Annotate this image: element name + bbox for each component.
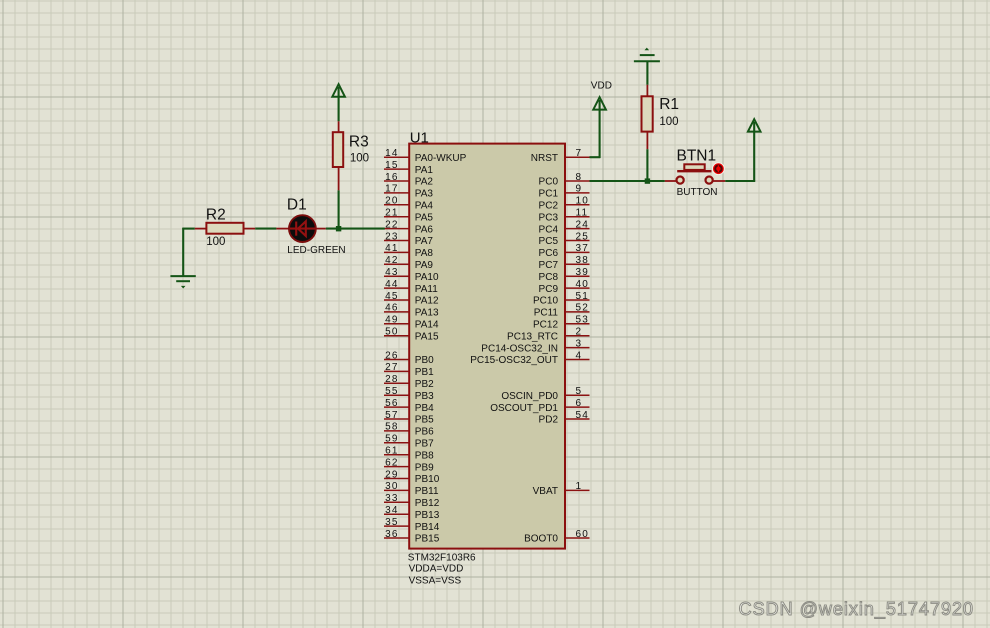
svg-text:39: 39 xyxy=(576,267,590,278)
svg-text:OSCIN_PD0: OSCIN_PD0 xyxy=(501,391,558,402)
pin PB0 (pin 26) left stub, number and name xyxy=(384,350,434,366)
svg-text:PC7: PC7 xyxy=(539,260,559,271)
button BTN1 left lead xyxy=(665,180,676,182)
pin OSCIN_PD0 (pin 5) right stub, number and name xyxy=(501,386,589,402)
svg-text:24: 24 xyxy=(576,219,590,230)
svg-text:VSSA=VSS: VSSA=VSS xyxy=(409,576,462,587)
svg-text:PA1: PA1 xyxy=(415,165,434,176)
wire: top ground down to R1 xyxy=(646,61,648,85)
pin PD2 (pin 54) right stub, number and name xyxy=(539,410,590,426)
button BTN1 left contact xyxy=(677,177,684,184)
svg-text:61: 61 xyxy=(385,446,399,457)
svg-text:59: 59 xyxy=(385,434,399,445)
svg-text:VDD: VDD xyxy=(591,81,612,92)
svg-text:NRST: NRST xyxy=(531,153,558,164)
resistor R1 body xyxy=(642,96,653,131)
LED D1 anode lead xyxy=(276,228,289,230)
pin PB13 (pin 34) left stub, number and name xyxy=(384,505,440,521)
junction node: R1 on PC0 wire xyxy=(645,178,650,183)
svg-text:PB0: PB0 xyxy=(415,355,434,366)
svg-text:PB14: PB14 xyxy=(415,522,440,533)
svg-text:PC12: PC12 xyxy=(533,320,558,331)
button BTN1 actuation red dot xyxy=(712,162,725,175)
svg-text:PB13: PB13 xyxy=(415,510,440,521)
svg-text:33: 33 xyxy=(385,493,399,504)
pin PB1 (pin 27) left stub, number and name xyxy=(384,362,434,378)
svg-text:PC9: PC9 xyxy=(539,284,559,295)
wire: ground corner to R2 left lead (horizontal) xyxy=(182,228,194,230)
LED D1 body (animated LED, black disc with red ring) xyxy=(289,215,316,242)
pin PA4 (pin 20) left stub, number and name xyxy=(384,196,433,212)
svg-text:41: 41 xyxy=(385,243,399,254)
svg-text:PA5: PA5 xyxy=(415,212,434,223)
pin PA13 (pin 46) left stub, number and name xyxy=(384,303,439,319)
pin PC11 (pin 52) right stub, number and name xyxy=(534,303,590,319)
svg-text:100: 100 xyxy=(659,116,678,128)
svg-text:46: 46 xyxy=(385,303,399,314)
svg-text:27: 27 xyxy=(385,362,399,373)
svg-text:CSDN @weixin_51747920: CSDN @weixin_51747920 xyxy=(739,599,974,620)
svg-text:STM32F103R6: STM32F103R6 xyxy=(408,553,476,564)
svg-text:44: 44 xyxy=(385,279,399,290)
svg-text:PA12: PA12 xyxy=(415,296,439,307)
pin OSCOUT_PD1 (pin 6) right stub, number and name xyxy=(490,398,589,414)
pin PC0 (pin 8) right stub, number and name xyxy=(539,172,590,188)
svg-text:PB8: PB8 xyxy=(415,450,434,461)
svg-text:57: 57 xyxy=(385,410,399,421)
pin PC10 (pin 51) right stub, number and name xyxy=(533,291,590,307)
pin 7 NRST wire to VDD riser xyxy=(590,156,601,158)
svg-text:54: 54 xyxy=(576,410,590,421)
svg-text:40: 40 xyxy=(576,279,590,290)
svg-text:21: 21 xyxy=(385,208,399,219)
pin PB11 (pin 30) left stub, number and name xyxy=(384,481,439,497)
svg-text:60: 60 xyxy=(576,529,590,540)
svg-text:17: 17 xyxy=(385,184,399,195)
wire: R1 bottom to PC0 wire junction xyxy=(646,149,648,181)
svg-text:10: 10 xyxy=(576,196,590,207)
svg-text:3: 3 xyxy=(576,338,583,349)
svg-text:PA14: PA14 xyxy=(415,320,439,331)
svg-text:PA9: PA9 xyxy=(415,260,434,271)
pin PA7 (pin 23) left stub, number and name xyxy=(384,231,433,247)
svg-text:PB10: PB10 xyxy=(415,474,440,485)
svg-text:37: 37 xyxy=(576,243,590,254)
svg-text:PB2: PB2 xyxy=(415,379,434,390)
button BTN1 right lead xyxy=(713,180,725,182)
svg-text:28: 28 xyxy=(385,374,399,385)
svg-text:PC5: PC5 xyxy=(539,236,559,247)
resistor R2 right lead xyxy=(244,228,256,230)
svg-text:58: 58 xyxy=(385,422,399,433)
resistor R3 body xyxy=(333,132,343,167)
svg-text:PC3: PC3 xyxy=(539,212,559,223)
svg-text:PB7: PB7 xyxy=(415,439,434,450)
pin NRST (pin 7) right stub, number and name xyxy=(531,148,590,164)
svg-text:PC15-OSC32_OUT: PC15-OSC32_OUT xyxy=(470,355,558,366)
svg-text:BOOT0: BOOT0 xyxy=(524,534,558,545)
svg-text:42: 42 xyxy=(385,255,399,266)
LED D1 cathode lead xyxy=(316,228,326,230)
junction node: R3 bottom on PA6 wire xyxy=(336,226,341,231)
svg-text:PC14-OSC32_IN: PC14-OSC32_IN xyxy=(481,343,558,354)
pin PC5 (pin 25) right stub, number and name xyxy=(539,231,590,247)
pin PB15 (pin 36) left stub, number and name xyxy=(384,529,440,545)
pin PA8 (pin 41) left stub, number and name xyxy=(384,243,433,259)
svg-text:2: 2 xyxy=(576,327,583,338)
pin PB7 (pin 59) left stub, number and name xyxy=(384,434,434,450)
wire: right power riser (vertical) xyxy=(753,122,755,182)
ground symbol (left, below R2) xyxy=(170,276,195,288)
svg-text:14: 14 xyxy=(385,148,399,159)
wire: ground riser to R2 (vertical) xyxy=(182,228,184,276)
power symbol (arrow) VDD xyxy=(593,97,606,109)
svg-text:PA8: PA8 xyxy=(415,248,434,259)
svg-text:PB6: PB6 xyxy=(415,427,434,438)
pin PB9 (pin 62) left stub, number and name xyxy=(384,457,434,473)
pin PB5 (pin 57) left stub, number and name xyxy=(384,410,434,426)
svg-text:52: 52 xyxy=(576,303,590,314)
svg-text:26: 26 xyxy=(385,350,399,361)
svg-text:62: 62 xyxy=(385,457,399,468)
pin PC1 (pin 9) right stub, number and name xyxy=(539,184,590,200)
svg-text:PC4: PC4 xyxy=(539,224,559,235)
svg-text:29: 29 xyxy=(385,469,399,480)
pin PA15 (pin 50) left stub, number and name xyxy=(384,327,439,343)
pin PA12 (pin 45) left stub, number and name xyxy=(384,291,439,307)
pin PA14 (pin 49) left stub, number and name xyxy=(384,315,439,331)
wire: BTN1 to right power riser xyxy=(725,180,755,182)
resistor R2 body xyxy=(206,223,243,234)
svg-text:PC0: PC0 xyxy=(539,177,559,188)
svg-text:53: 53 xyxy=(576,315,590,326)
svg-text:8: 8 xyxy=(576,172,583,183)
svg-text:PA6: PA6 xyxy=(415,224,434,235)
svg-text:56: 56 xyxy=(385,398,399,409)
svg-text:PB11: PB11 xyxy=(415,486,439,497)
svg-text:PB12: PB12 xyxy=(415,498,440,509)
svg-text:PA11: PA11 xyxy=(415,284,438,295)
pin PA1 (pin 15) left stub, number and name xyxy=(384,160,433,176)
pin PA6 (pin 22) left stub, number and name xyxy=(384,219,433,235)
pin BOOT0 (pin 60) right stub, number and name xyxy=(524,529,589,545)
pin PC2 (pin 10) right stub, number and name xyxy=(539,196,590,212)
svg-text:PB5: PB5 xyxy=(415,415,434,426)
svg-text:15: 15 xyxy=(385,160,399,171)
pin PC3 (pin 11) right stub, number and name xyxy=(539,208,590,224)
wire: VDD riser (vertical) xyxy=(599,100,601,158)
pin PC8 (pin 39) right stub, number and name xyxy=(539,267,590,283)
svg-text:45: 45 xyxy=(385,291,399,302)
pin VBAT (pin 1) right stub, number and name xyxy=(533,481,590,497)
svg-text:PC13_RTC: PC13_RTC xyxy=(507,331,558,342)
svg-text:PA13: PA13 xyxy=(415,308,439,319)
power symbol (arrow) above R3 xyxy=(332,84,345,97)
pin PA3 (pin 17) left stub, number and name xyxy=(384,184,433,200)
svg-text:PD2: PD2 xyxy=(539,415,559,426)
svg-text:36: 36 xyxy=(385,529,399,540)
svg-text:22: 22 xyxy=(385,219,399,230)
svg-text:U1: U1 xyxy=(410,129,429,146)
svg-text:20: 20 xyxy=(385,196,399,207)
pin PC13_RTC (pin 2) right stub, number and name xyxy=(507,327,589,343)
pin PC7 (pin 38) right stub, number and name xyxy=(539,255,590,271)
pin PB10 (pin 29) left stub, number and name xyxy=(384,469,440,485)
svg-text:PC8: PC8 xyxy=(539,272,559,283)
wire: R3 top to power arrow xyxy=(338,87,340,121)
svg-text:PA0-WKUP: PA0-WKUP xyxy=(415,153,467,164)
svg-text:PA2: PA2 xyxy=(415,177,434,188)
pin PC4 (pin 24) right stub, number and name xyxy=(539,219,590,235)
svg-text:PA7: PA7 xyxy=(415,236,434,247)
svg-text:BUTTON: BUTTON xyxy=(677,187,718,198)
svg-text:50: 50 xyxy=(385,327,399,338)
ground symbol (top, above R1, flipped) xyxy=(634,48,660,62)
pin PB2 (pin 28) left stub, number and name xyxy=(384,374,434,390)
wire: R2 to D1 xyxy=(255,228,276,230)
pin PB6 (pin 58) left stub, number and name xyxy=(384,422,434,438)
pin PC14-OSC32_IN (pin 3) right stub, number and name xyxy=(481,338,589,354)
svg-text:23: 23 xyxy=(385,231,399,242)
svg-text:PC1: PC1 xyxy=(539,189,559,200)
svg-text:LED-GREEN: LED-GREEN xyxy=(287,245,345,256)
pin PB14 (pin 35) left stub, number and name xyxy=(384,517,440,533)
svg-text:PB1: PB1 xyxy=(415,367,434,378)
svg-text:30: 30 xyxy=(385,481,399,492)
pin PC6 (pin 37) right stub, number and name xyxy=(539,243,590,259)
svg-text:43: 43 xyxy=(385,267,399,278)
pin PC9 (pin 40) right stub, number and name xyxy=(539,279,590,295)
svg-text:38: 38 xyxy=(576,255,590,266)
svg-text:R1: R1 xyxy=(659,96,679,113)
svg-text:PC6: PC6 xyxy=(539,248,559,259)
svg-text:PB15: PB15 xyxy=(415,534,440,545)
power symbol (arrow) right of BTN1 xyxy=(748,119,761,131)
svg-text:7: 7 xyxy=(576,148,583,159)
svg-text:100: 100 xyxy=(206,236,225,248)
pin PB12 (pin 33) left stub, number and name xyxy=(384,493,440,509)
svg-text:PB9: PB9 xyxy=(415,462,434,473)
resistor R2 left lead xyxy=(195,228,207,230)
button BTN1 right contact xyxy=(706,177,713,184)
pin PA9 (pin 42) left stub, number and name xyxy=(384,255,433,271)
svg-text:PA4: PA4 xyxy=(415,201,434,212)
resistor R1 top lead xyxy=(646,85,648,97)
svg-text:51: 51 xyxy=(576,291,590,302)
svg-text:PC2: PC2 xyxy=(539,201,559,212)
svg-text:4: 4 xyxy=(576,350,583,361)
svg-text:100: 100 xyxy=(350,153,369,165)
pin PA11 (pin 44) left stub, number and name xyxy=(384,279,438,295)
pin PA10 (pin 43) left stub, number and name xyxy=(384,267,439,283)
svg-text:OSCOUT_PD1: OSCOUT_PD1 xyxy=(490,403,558,414)
wire: D1 to PA6 pin xyxy=(326,228,385,230)
pin PC12 (pin 53) right stub, number and name xyxy=(533,315,590,331)
pin PB8 (pin 61) left stub, number and name xyxy=(384,446,434,462)
svg-text:PA3: PA3 xyxy=(415,189,434,200)
pin PC15-OSC32_OUT (pin 4) right stub, number and name xyxy=(470,350,589,366)
svg-text:35: 35 xyxy=(385,517,399,528)
pin PA0-WKUP (pin 14) left stub, number and name xyxy=(384,148,467,164)
svg-text:VDDA=VDD: VDDA=VDD xyxy=(409,564,464,575)
svg-text:34: 34 xyxy=(385,505,399,516)
svg-text:55: 55 xyxy=(385,386,399,397)
resistor R1 bottom lead xyxy=(646,132,648,150)
svg-text:BTN1: BTN1 xyxy=(677,147,717,164)
svg-text:9: 9 xyxy=(576,184,583,195)
svg-text:25: 25 xyxy=(576,231,590,242)
svg-text:VBAT: VBAT xyxy=(533,486,558,497)
svg-text:1: 1 xyxy=(576,481,583,492)
resistor R3 top lead xyxy=(338,121,340,132)
svg-text:R2: R2 xyxy=(206,206,226,223)
wire: junction up to R3 bottom lead xyxy=(338,190,340,228)
svg-text:PB4: PB4 xyxy=(415,403,434,414)
IC U1 STM32F103R6 body xyxy=(409,144,565,549)
pin PA2 (pin 16) left stub, number and name xyxy=(384,172,433,188)
svg-text:PC11: PC11 xyxy=(534,308,559,319)
pin PA5 (pin 21) left stub, number and name xyxy=(384,208,433,224)
svg-text:6: 6 xyxy=(576,398,583,409)
resistor R3 bottom lead xyxy=(338,167,340,190)
pin PB4 (pin 56) left stub, number and name xyxy=(384,398,434,414)
svg-text:PB3: PB3 xyxy=(415,391,434,402)
svg-text:D1: D1 xyxy=(287,197,307,214)
svg-text:11: 11 xyxy=(576,208,589,219)
pin PB3 (pin 55) left stub, number and name xyxy=(384,386,434,402)
svg-text:49: 49 xyxy=(385,315,399,326)
svg-text:16: 16 xyxy=(385,172,399,183)
svg-text:R3: R3 xyxy=(349,133,369,150)
svg-text:PA15: PA15 xyxy=(415,331,439,342)
button BTN1 actuator cap xyxy=(677,164,711,171)
wire: PC0 pin to button BTN1 xyxy=(590,180,665,182)
svg-text:PC10: PC10 xyxy=(533,296,558,307)
svg-text:5: 5 xyxy=(576,386,583,397)
svg-text:PA10: PA10 xyxy=(415,272,439,283)
